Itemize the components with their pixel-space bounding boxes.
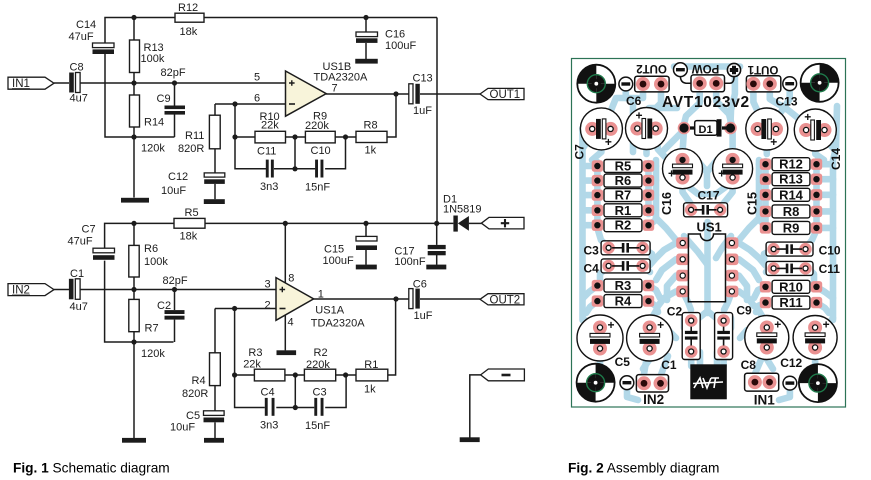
svg-text:C6: C6	[413, 279, 427, 291]
svg-text:C13: C13	[776, 95, 798, 109]
svg-text:8: 8	[288, 273, 294, 285]
svg-text:C11: C11	[257, 146, 276, 158]
svg-text:OUT1: OUT1	[490, 89, 521, 101]
svg-text:820R: 820R	[182, 388, 208, 400]
svg-text:+: +	[668, 167, 675, 181]
svg-text:10uF: 10uF	[161, 185, 186, 197]
svg-text:C3: C3	[584, 243, 600, 257]
svg-text:82pF: 82pF	[161, 67, 186, 79]
svg-text:R5: R5	[615, 159, 632, 174]
svg-text:4u7: 4u7	[70, 301, 88, 313]
svg-text:6: 6	[254, 93, 260, 105]
svg-text:Fig. 2 Assembly diagram: Fig. 2 Assembly diagram	[568, 461, 719, 476]
svg-text:OUT1: OUT1	[747, 63, 778, 75]
svg-text:22k: 22k	[261, 119, 279, 131]
svg-text:C12: C12	[780, 356, 802, 370]
svg-text:C14: C14	[76, 19, 96, 31]
svg-text:IN2: IN2	[643, 392, 664, 407]
svg-text:47uF: 47uF	[68, 236, 93, 248]
svg-text:C16: C16	[385, 29, 405, 41]
svg-text:1uF: 1uF	[414, 310, 433, 322]
svg-text:C15: C15	[746, 192, 760, 215]
svg-text:1k: 1k	[365, 145, 377, 157]
svg-text:10uF: 10uF	[170, 422, 195, 434]
svg-text:D1: D1	[699, 124, 713, 136]
svg-text:R9: R9	[783, 220, 800, 235]
svg-text:C7: C7	[82, 224, 96, 236]
svg-text:C2: C2	[157, 300, 171, 312]
svg-text:120k: 120k	[141, 143, 165, 155]
svg-text:R2: R2	[615, 218, 632, 233]
svg-text:R3: R3	[248, 347, 262, 359]
svg-text:R4: R4	[615, 294, 632, 309]
svg-text:18k: 18k	[180, 26, 198, 38]
svg-text:R8: R8	[783, 204, 800, 219]
svg-text:100uF: 100uF	[385, 40, 416, 52]
svg-text:15nF: 15nF	[305, 182, 330, 194]
svg-text:C11: C11	[819, 262, 841, 276]
svg-text:C3: C3	[313, 386, 327, 398]
svg-text:TDA2320A: TDA2320A	[314, 72, 368, 84]
svg-text:C12: C12	[168, 171, 188, 183]
svg-text:C6: C6	[626, 94, 642, 108]
svg-text:7: 7	[332, 83, 338, 95]
svg-text:C7: C7	[573, 144, 587, 160]
svg-text:R6: R6	[615, 173, 632, 188]
svg-text:R3: R3	[615, 278, 632, 293]
svg-text:47uF: 47uF	[69, 31, 94, 43]
svg-text:+: +	[823, 318, 830, 332]
svg-text:C5: C5	[615, 355, 631, 369]
svg-text:+: +	[657, 318, 664, 332]
svg-text:C14: C14	[829, 148, 843, 170]
svg-text:US1A: US1A	[315, 304, 344, 316]
svg-text:R14: R14	[779, 187, 804, 202]
svg-text:+: +	[636, 109, 643, 123]
svg-text:C1: C1	[661, 358, 677, 372]
svg-text:4: 4	[288, 317, 294, 329]
svg-text:+: +	[770, 135, 777, 149]
svg-text:Fig. 1 Schematic diagram: Fig. 1 Schematic diagram	[13, 461, 170, 476]
svg-text:3: 3	[265, 279, 271, 291]
svg-text:+: +	[605, 135, 612, 149]
svg-text:OUT2: OUT2	[636, 62, 667, 74]
svg-text:C13: C13	[413, 73, 433, 85]
svg-text:C4: C4	[261, 386, 275, 398]
svg-text:R5: R5	[185, 207, 199, 219]
svg-text:820R: 820R	[178, 143, 204, 155]
svg-text:+: +	[608, 318, 615, 332]
svg-text:R8: R8	[364, 120, 378, 132]
svg-text:3n3: 3n3	[260, 420, 278, 432]
svg-text:100k: 100k	[141, 53, 165, 65]
svg-text:+: +	[804, 110, 811, 124]
svg-text:82pF: 82pF	[163, 275, 188, 287]
svg-text:R2: R2	[314, 347, 328, 359]
svg-text:C17: C17	[698, 189, 720, 203]
svg-text:4u7: 4u7	[70, 93, 88, 105]
svg-text:R6: R6	[144, 243, 158, 255]
svg-text:100k: 100k	[144, 256, 168, 268]
svg-text:R14: R14	[144, 117, 164, 129]
svg-text:C1: C1	[70, 268, 84, 280]
svg-text:R4: R4	[192, 375, 206, 387]
svg-text:100nF: 100nF	[394, 256, 425, 268]
svg-text:1k: 1k	[364, 384, 376, 396]
svg-text:IN2: IN2	[12, 285, 30, 297]
svg-text:R7: R7	[615, 188, 632, 203]
svg-text:AVT1023v2: AVT1023v2	[662, 94, 750, 111]
svg-text:C9: C9	[157, 93, 171, 105]
svg-text:R10: R10	[779, 279, 803, 294]
svg-text:C15: C15	[324, 244, 344, 256]
svg-text:IN1: IN1	[12, 78, 30, 90]
svg-text:1: 1	[318, 289, 324, 301]
svg-text:22k: 22k	[243, 358, 261, 370]
svg-text:C8: C8	[741, 358, 757, 372]
svg-text:C2: C2	[667, 305, 683, 319]
svg-text:C5: C5	[186, 410, 200, 422]
svg-text:15nF: 15nF	[305, 420, 330, 432]
svg-text:R12: R12	[178, 2, 198, 14]
svg-text:C10: C10	[311, 145, 331, 157]
svg-text:+: +	[774, 318, 781, 332]
svg-text:2: 2	[265, 299, 271, 311]
svg-text:TDA2320A: TDA2320A	[311, 317, 365, 329]
svg-text:POW: POW	[692, 62, 720, 74]
svg-text:+: +	[718, 167, 725, 181]
svg-text:US1: US1	[697, 220, 722, 235]
svg-text:C10: C10	[819, 243, 841, 257]
svg-text:R13: R13	[779, 172, 803, 187]
svg-text:220k: 220k	[305, 120, 329, 132]
svg-text:C9: C9	[736, 304, 752, 318]
svg-text:1uF: 1uF	[413, 105, 432, 117]
svg-text:5: 5	[254, 72, 260, 84]
svg-text:C16: C16	[660, 192, 674, 215]
svg-text:C8: C8	[70, 62, 84, 74]
svg-text:R11: R11	[185, 130, 204, 142]
svg-text:3n3: 3n3	[260, 181, 278, 193]
svg-text:C4: C4	[584, 262, 600, 276]
svg-text:1N5819: 1N5819	[443, 203, 482, 215]
svg-text:OUT2: OUT2	[490, 294, 521, 306]
svg-text:IN1: IN1	[754, 393, 776, 408]
svg-text:R1: R1	[364, 359, 378, 371]
svg-text:120k: 120k	[141, 348, 165, 360]
svg-text:100uF: 100uF	[323, 255, 354, 267]
svg-text:R7: R7	[145, 323, 159, 335]
svg-text:18k: 18k	[180, 231, 198, 243]
svg-text:R11: R11	[779, 295, 802, 310]
svg-text:R1: R1	[615, 203, 632, 218]
svg-text:R12: R12	[779, 157, 803, 172]
svg-text:220k: 220k	[306, 359, 330, 371]
